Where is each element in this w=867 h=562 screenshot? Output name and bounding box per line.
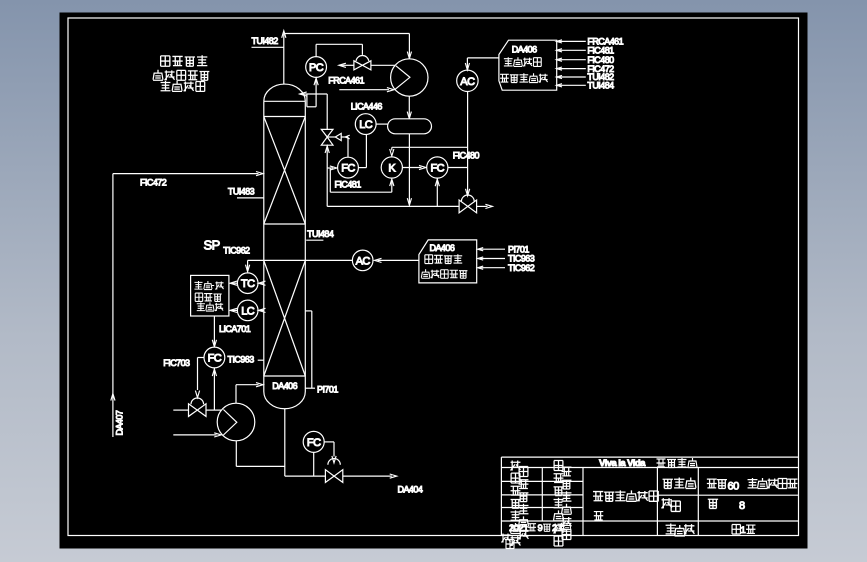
svg-text:FIC703: FIC703 — [163, 358, 190, 368]
svg-text:TIC962: TIC962 — [223, 246, 250, 256]
svg-text:8: 8 — [739, 500, 745, 512]
svg-text:FC: FC — [208, 352, 222, 364]
svg-text:AC: AC — [356, 255, 371, 267]
svg-text:TIC962: TIC962 — [508, 263, 535, 273]
svg-text:DA406: DA406 — [430, 243, 455, 253]
svg-text:K: K — [388, 162, 396, 174]
svg-text:TC: TC — [241, 278, 255, 290]
svg-text:DA404: DA404 — [398, 484, 423, 494]
svg-text:LC: LC — [241, 305, 255, 317]
svg-text:DA406: DA406 — [272, 381, 297, 391]
svg-text:TUI482: TUI482 — [252, 36, 279, 46]
svg-text:FC: FC — [431, 162, 445, 174]
svg-text:2: 2 — [552, 523, 557, 534]
svg-text:2021: 2021 — [509, 523, 528, 534]
svg-text:LICA446: LICA446 — [351, 101, 383, 111]
svg-text:Viva la Vida: Viva la Vida — [599, 458, 646, 469]
svg-text:TUI483: TUI483 — [228, 186, 255, 196]
svg-text:FRCA461: FRCA461 — [328, 75, 364, 85]
svg-text:FIC481: FIC481 — [335, 179, 362, 189]
svg-text:SP: SP — [204, 237, 220, 252]
svg-text:FIC472: FIC472 — [140, 177, 167, 187]
svg-text:FIC480: FIC480 — [453, 150, 480, 160]
svg-text:TUI484: TUI484 — [307, 229, 334, 239]
svg-text:TIC963: TIC963 — [228, 354, 255, 364]
svg-text:PC: PC — [309, 62, 324, 74]
svg-text:AC: AC — [460, 76, 475, 88]
svg-text:LC: LC — [359, 119, 373, 131]
svg-text:FC: FC — [341, 163, 355, 175]
svg-text:LICA701: LICA701 — [219, 324, 251, 334]
svg-text:TUI484: TUI484 — [587, 81, 614, 91]
svg-text:FC: FC — [307, 437, 321, 449]
svg-text:9: 9 — [538, 523, 543, 534]
svg-text:PI701: PI701 — [317, 385, 338, 395]
svg-text:60: 60 — [728, 481, 740, 493]
svg-text:1: 1 — [741, 525, 746, 536]
svg-text:DA406: DA406 — [512, 44, 537, 54]
svg-text:DA407: DA407 — [115, 410, 125, 435]
